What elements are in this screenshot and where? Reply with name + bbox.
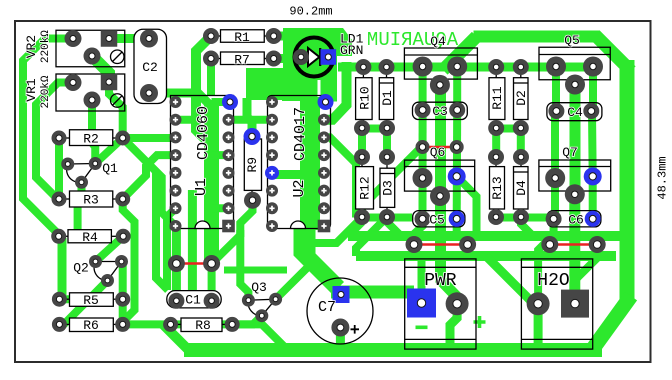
pad VR2-2 square bbox=[101, 30, 118, 47]
wire H2O round pad down bbox=[534, 304, 543, 350]
pad C6 left bbox=[546, 211, 562, 227]
pad jumper W1 left bbox=[168, 255, 185, 272]
svg-text:CD4017: CD4017 bbox=[292, 107, 309, 161]
pad R11 bottom bbox=[488, 120, 504, 136]
pad D4 top bbox=[513, 149, 529, 165]
pad U1 pin bbox=[223, 131, 235, 143]
wire Q6 mid through bands into PWR bbox=[441, 196, 458, 304]
pad U1 pin bbox=[223, 167, 235, 179]
IC U1 outline bbox=[171, 96, 234, 229]
pad C3 right bbox=[449, 102, 465, 118]
trimmer screw VR1 bbox=[111, 94, 125, 108]
wire band B bbox=[356, 251, 616, 261]
pad U2 pin bbox=[318, 185, 330, 197]
svg-text:R11: R11 bbox=[490, 86, 505, 110]
svg-text:R10: R10 bbox=[358, 86, 373, 109]
wire band A bbox=[348, 231, 622, 241]
pad Q1-2 bbox=[89, 157, 102, 170]
svg-text:Q5: Q5 bbox=[564, 33, 580, 48]
wire blob lower extension bbox=[246, 68, 318, 100]
wire C3 left leg through Q6 to C5 bbox=[419, 110, 427, 219]
wire left perimeter from VR2 pin bbox=[23, 39, 73, 237]
svg-text:C2: C2 bbox=[142, 60, 158, 75]
wire D3 to band B bbox=[356, 217, 387, 256]
pad R4 right bbox=[116, 229, 131, 244]
capacitor C5 outline bbox=[413, 211, 465, 227]
pad R10 top bbox=[355, 59, 371, 75]
pad U1 pin bbox=[223, 149, 235, 161]
pad VR1 wiper bbox=[84, 92, 101, 109]
svg-text:Q2: Q2 bbox=[73, 261, 89, 276]
wire Q5 middle down to Q7 bbox=[570, 85, 581, 195]
pad U1 pin bbox=[170, 114, 182, 126]
wire R6 to R8 bbox=[123, 320, 233, 328]
pad Q1-3 bbox=[75, 176, 88, 189]
wire C2 to U1 band bbox=[149, 93, 212, 107]
wire Q3 bottom to R8 right bbox=[234, 316, 262, 325]
resistor R4 bbox=[59, 230, 124, 243]
diode D3 bbox=[380, 157, 395, 217]
pad Q6-1 bbox=[413, 168, 433, 188]
pad PWR plus bbox=[446, 292, 469, 315]
pad C2 bottom bbox=[140, 84, 158, 102]
capacitor C1 bbox=[167, 291, 221, 308]
pad Q4-3 bbox=[430, 75, 450, 95]
pad H2O round bbox=[527, 292, 550, 315]
IC U2 pads bbox=[265, 94, 334, 232]
svg-text:R7: R7 bbox=[234, 53, 250, 68]
node PWR minus symbol bbox=[416, 326, 428, 330]
svg-text:H2O: H2O bbox=[537, 271, 569, 291]
svg-text:VR1: VR1 bbox=[24, 78, 39, 102]
pad R13 top bbox=[488, 149, 504, 165]
wire jumper right pad down to C1 bbox=[208, 264, 216, 301]
pad jumper W3 left bbox=[406, 236, 423, 253]
svg-text:R12: R12 bbox=[358, 176, 373, 199]
svg-text:Q4: Q4 bbox=[430, 34, 446, 49]
wire right band bbox=[620, 60, 635, 300]
pad Q5-3 bbox=[565, 75, 585, 95]
resistor R2 bbox=[59, 130, 123, 146]
wire loop R11 D2 bottoms bbox=[496, 129, 521, 158]
svg-text:C1: C1 bbox=[185, 293, 201, 308]
pad C7 minus bbox=[331, 319, 349, 337]
svg-text:Q7: Q7 bbox=[562, 145, 578, 160]
wire C6 left to jumper pad bbox=[550, 219, 554, 245]
wire R4 left down to R5 left bbox=[59, 236, 62, 299]
pad H2O square bbox=[561, 290, 589, 318]
pad jumper W1 right bbox=[203, 255, 220, 272]
wire R2 right diagonal to U1 pin8 bbox=[123, 138, 176, 226]
wire PWR round pad down bbox=[450, 304, 457, 350]
wire U2 bottom descent to C7 band bbox=[302, 228, 338, 288]
wire U2 band arm to blue pad bbox=[272, 170, 300, 179]
pad R13 bottom bbox=[488, 209, 504, 225]
wire right band top chamfer bbox=[595, 35, 631, 71]
wire Q7 mid down to H2O bbox=[569, 194, 580, 300]
pad VR1-2 square bbox=[101, 74, 118, 91]
pad C3 left bbox=[415, 102, 431, 118]
wire jumper right to U2 region bbox=[212, 230, 241, 264]
pad jumper W4 left bbox=[541, 236, 558, 253]
wire U1 left pad arm row2 bbox=[176, 116, 197, 124]
node PWR plus symbol bbox=[474, 316, 486, 328]
capacitor C6 outline bbox=[547, 211, 601, 227]
pad U2 pin bbox=[318, 202, 330, 214]
wire R12 D3 bottom row bbox=[362, 214, 412, 222]
pad U2 pin bbox=[266, 185, 278, 197]
wire diag to R6 left bbox=[59, 302, 86, 324]
wire jumper W4 bbox=[550, 243, 597, 246]
svg-text:R2: R2 bbox=[83, 132, 99, 147]
pad R11 top bbox=[488, 59, 504, 75]
pad C1 left bbox=[168, 293, 184, 309]
pad U1 pin bbox=[170, 185, 182, 197]
pad R9 bottom bbox=[244, 192, 261, 209]
wire loop R10 D1 bottoms bbox=[362, 129, 387, 158]
svg-text:C7: C7 bbox=[318, 299, 336, 316]
wire mid diagonal to H2O bbox=[486, 256, 537, 307]
pad D4 bottom bbox=[513, 209, 529, 225]
svg-text:R6: R6 bbox=[83, 318, 99, 333]
pad Q7-3 bbox=[565, 184, 585, 204]
pad R1 right bbox=[266, 28, 282, 44]
wire Q4 right leg bbox=[453, 67, 461, 111]
pad R12 top bbox=[354, 149, 370, 165]
resistor R12 bbox=[356, 157, 374, 217]
pad D3 bottom bbox=[379, 209, 395, 225]
svg-text:220kΩ: 220kΩ bbox=[40, 30, 52, 63]
svg-text:C5: C5 bbox=[429, 213, 445, 228]
pad U1 pin square bbox=[222, 220, 235, 233]
wire U2 band top arm bbox=[282, 93, 310, 101]
pad Q4-1 bbox=[413, 57, 433, 77]
capacitor C2 bbox=[134, 29, 167, 103]
pad U2 pin bbox=[266, 131, 278, 143]
wire blob area main bbox=[283, 28, 337, 80]
transistor Q2 outline bbox=[94, 262, 121, 281]
pad R7 right bbox=[266, 51, 282, 67]
svg-text:GRN: GRN bbox=[340, 43, 363, 58]
pad R10 bottom bbox=[354, 120, 370, 136]
wire U1 left stripe 2 bbox=[188, 190, 197, 290]
pad Q7-1 bbox=[545, 168, 565, 188]
diode D2 bbox=[514, 67, 529, 128]
wire Q3 left connector bbox=[240, 236, 248, 300]
pad U1 pin bbox=[223, 114, 235, 126]
pad U2 pin bbox=[266, 220, 278, 232]
pad U1 pin blue top bbox=[222, 94, 238, 110]
transistor Q4 outline bbox=[404, 48, 477, 79]
svg-text:48.3mm: 48.3mm bbox=[656, 156, 670, 199]
wire Q4 middle down to Q6 bbox=[435, 85, 446, 196]
resistor R13 bbox=[490, 157, 505, 217]
pad C2 top bbox=[140, 30, 158, 48]
transistor Q5 outline bbox=[539, 47, 610, 80]
pad U2 pin bbox=[266, 149, 278, 161]
resistor R10 bbox=[356, 67, 373, 128]
wire jumper W3 bbox=[414, 243, 468, 246]
pad U2 pin bbox=[318, 167, 330, 179]
wire R2 left to R3 left bbox=[55, 138, 63, 199]
wire Q6 jumper left diag to R12 bottom bbox=[362, 146, 422, 217]
label C7 plus bbox=[351, 325, 360, 334]
wire U1 left stripe 1 bbox=[167, 208, 176, 290]
wire U1 band arm row7 bbox=[212, 204, 229, 212]
LED LD1 cathode bar bbox=[319, 48, 321, 66]
wire R2 right to Q1 right diag bbox=[95, 138, 122, 164]
IC U1 pads bbox=[170, 94, 239, 232]
pad U2 pin bbox=[266, 202, 278, 214]
wire R4 right to Q2 left bbox=[96, 236, 124, 261]
potentiometer VR2 bbox=[56, 30, 125, 67]
wire H2O round pad up bbox=[538, 245, 550, 304]
svg-text:VR2: VR2 bbox=[24, 35, 39, 58]
pad LED anode bbox=[293, 49, 309, 65]
pad U1 pin bbox=[223, 202, 235, 214]
wire VR2 square to C2 bbox=[109, 34, 149, 43]
svg-text:U1: U1 bbox=[193, 178, 210, 196]
pad VR1-1 bbox=[65, 74, 82, 91]
pad R5 left bbox=[52, 292, 67, 307]
resistor R5 bbox=[59, 293, 122, 307]
transistor Q6 outline bbox=[405, 160, 475, 191]
pad C5 left bbox=[415, 211, 431, 227]
capacitor C7 outline circle bbox=[307, 278, 373, 344]
pad Q2-1 bbox=[89, 255, 102, 268]
transistor Q3 outline bbox=[248, 299, 275, 316]
pad U1 pin bbox=[170, 96, 182, 108]
wire D3 to band A bbox=[387, 217, 399, 237]
svg-text:220kΩ: 220kΩ bbox=[40, 75, 52, 108]
wire Q2 right to R5 right to R6 right bbox=[122, 262, 123, 325]
wire C4 right to Q7 blue to C6 blue bbox=[588, 111, 597, 219]
pad R8 left bbox=[163, 317, 178, 332]
wire band A left tip bbox=[348, 222, 362, 236]
pad R6 right bbox=[115, 317, 130, 332]
pad U2 pin blue top bbox=[318, 94, 334, 110]
pad R12 bottom bbox=[354, 209, 370, 225]
resistor R3 bbox=[59, 191, 123, 207]
wire U2 internal band bbox=[300, 97, 320, 230]
svg-text:D2: D2 bbox=[514, 90, 529, 106]
pad VR2 wiper bbox=[84, 48, 101, 65]
wire VR1 square to R2 right bbox=[109, 82, 123, 138]
wire R8 right to bottom band bbox=[232, 324, 287, 350]
svg-text:PWR: PWR bbox=[424, 271, 457, 291]
resistor R8 bbox=[171, 318, 233, 332]
svg-text:D1: D1 bbox=[380, 90, 395, 106]
pad U2 pin bbox=[266, 96, 278, 108]
capacitor C3 outline bbox=[413, 102, 468, 119]
pad U1 pin bbox=[170, 202, 182, 214]
wire jumper W2 bbox=[423, 146, 457, 149]
wire R1 left down bbox=[196, 36, 211, 139]
svg-text:R4: R4 bbox=[82, 230, 98, 245]
wire C7 plus pad down bbox=[336, 328, 345, 351]
svg-text:Q3: Q3 bbox=[251, 280, 267, 295]
wire left stripe extra bbox=[156, 172, 168, 290]
wire Q6 blue diag down bbox=[457, 176, 477, 237]
wire U1 pin8 down through jumper W1 to C1 left bbox=[171, 226, 181, 301]
pad U2 pin blue bbox=[265, 166, 279, 180]
wire Q1 bottom stub down bbox=[78, 182, 86, 192]
wire Q2 bottom to R5 left bbox=[59, 281, 107, 300]
pad U2 pin square bbox=[318, 220, 331, 233]
pad U2 pin bbox=[266, 114, 278, 126]
wire blob right finger to U2 bbox=[321, 80, 338, 102]
pad Q3-3 bbox=[255, 309, 268, 322]
svg-text:R3: R3 bbox=[83, 193, 99, 208]
pad C4 left bbox=[548, 103, 564, 119]
wire Q6 jumper right to blue pad bbox=[453, 110, 462, 219]
pad D3 top bbox=[379, 149, 395, 165]
pad R6 left bbox=[52, 317, 67, 332]
pad Q5-2 bbox=[583, 57, 603, 77]
wire C5 blue stub bbox=[453, 219, 461, 236]
wire jumper W3 right to band B bbox=[464, 245, 472, 259]
svg-text:90.2mm: 90.2mm bbox=[289, 5, 332, 19]
resistor R6 bbox=[59, 318, 122, 332]
pad Q2-3 bbox=[101, 274, 114, 287]
wire D4 to band A bbox=[521, 217, 531, 237]
wire R8 row to bottom band bbox=[163, 324, 189, 350]
pad jumper W3 right bbox=[459, 236, 476, 253]
svg-text:U2: U2 bbox=[291, 179, 308, 197]
wire C7 horizontal band to PWR blue bbox=[331, 286, 414, 299]
svg-text:R1: R1 bbox=[234, 30, 250, 45]
pad PWR minus blue square bbox=[407, 289, 436, 318]
wire R13 D4 bottom row bbox=[496, 214, 547, 222]
svg-text:R5: R5 bbox=[83, 293, 99, 308]
pad R1 left bbox=[203, 28, 219, 44]
pad U1 pin bbox=[170, 167, 182, 179]
trimmer screw VR2 bbox=[111, 50, 125, 64]
pad Q2-2 bbox=[115, 255, 128, 268]
transistor Q1 outline bbox=[67, 164, 96, 183]
pad Q6-2 blue bbox=[448, 167, 466, 185]
pad jumper W2 left bbox=[416, 140, 430, 154]
wire Q4 left leg bbox=[419, 67, 427, 111]
wire PWR blue pad up bbox=[414, 245, 422, 304]
resistor R11 bbox=[489, 67, 505, 128]
wire U1 internal band bbox=[204, 100, 219, 264]
svg-text:R13: R13 bbox=[490, 176, 505, 199]
pad U2 pin bbox=[318, 149, 330, 161]
svg-text:C6: C6 bbox=[568, 213, 584, 228]
pad Q1-1 bbox=[61, 158, 74, 171]
connector H2O outline bbox=[521, 259, 592, 349]
pad Q5-1 bbox=[546, 57, 566, 77]
svg-text:D4: D4 bbox=[514, 180, 529, 196]
wire jumper W1 bbox=[176, 262, 211, 265]
svg-text:Q6: Q6 bbox=[430, 145, 446, 160]
pad U2 pin bbox=[318, 131, 330, 143]
diode D4 bbox=[514, 157, 529, 217]
pad Q4-2 bbox=[447, 57, 467, 77]
wire R3 right to U1 bbox=[123, 155, 176, 199]
pad jumper W2 right bbox=[450, 140, 464, 154]
wire left inner from VR1 pin bbox=[36, 83, 73, 201]
pad Q3-1 bbox=[242, 294, 255, 307]
pad jumper W4 right bbox=[589, 236, 606, 253]
pad Q7-2 blue bbox=[584, 167, 602, 185]
svg-text:R8: R8 bbox=[195, 318, 211, 333]
pad LED cathode blue square bbox=[321, 49, 337, 65]
pad R3 left bbox=[52, 192, 67, 207]
wire C5 left to jumper pad bbox=[414, 219, 423, 245]
pad R3 right bbox=[115, 192, 130, 207]
pad C4 right bbox=[583, 103, 599, 119]
pad VR2-1 bbox=[65, 30, 82, 47]
pad R5 right bbox=[115, 292, 130, 307]
wire Q3 right up to U2 bbox=[276, 230, 312, 299]
capacitor C4 outline bbox=[547, 103, 602, 121]
wire top horizontal row y67 bbox=[338, 63, 593, 72]
wire top band bbox=[474, 31, 601, 43]
transistor Q7 outline bbox=[539, 160, 611, 191]
wire R7 left down bbox=[207, 59, 215, 96]
pad U2 pin bbox=[318, 114, 330, 126]
wire R3 right down to R6 right bbox=[123, 199, 135, 324]
wire h row y243 to R12 bottom bbox=[306, 218, 363, 244]
wire VR2 wiper to VR1 square bbox=[92, 56, 109, 82]
wire top band drop diagonal bbox=[443, 37, 477, 71]
LED LD1 circle bbox=[295, 38, 334, 77]
pad C7 plus blue square bbox=[333, 286, 350, 303]
resistor R9 bbox=[244, 137, 261, 201]
wire jumper to H2O square pad bbox=[575, 245, 597, 301]
wire y67 row branch down to U2 pin bbox=[324, 62, 347, 120]
pad C5 right blue bbox=[449, 211, 465, 227]
wire R2 right to U1 bbox=[123, 134, 176, 142]
pad U1 pin bbox=[170, 220, 182, 232]
wire U1 band arm row1 bbox=[212, 98, 231, 106]
pad D1 bottom bbox=[379, 120, 395, 136]
pad R2 left bbox=[52, 131, 67, 146]
wire Q5 right leg bbox=[589, 67, 597, 112]
svg-text:D3: D3 bbox=[381, 180, 396, 196]
svg-text:R9: R9 bbox=[245, 157, 260, 173]
connector PWR outline bbox=[405, 259, 476, 349]
pad D1 top bbox=[379, 59, 395, 75]
svg-text:CD4060: CD4060 bbox=[195, 106, 212, 160]
LED LD1 diode triangle bbox=[308, 48, 319, 66]
wire h stub y270 bbox=[224, 267, 287, 274]
wire VR1 wiper down to Q1 bbox=[92, 100, 95, 164]
pad R7 left bbox=[203, 51, 219, 67]
pad D2 top bbox=[513, 59, 529, 75]
pad R2 right bbox=[115, 131, 130, 146]
wire blob to R9 top bbox=[247, 98, 252, 137]
pad Q3-2 bbox=[269, 293, 282, 306]
pad U1 pin bbox=[223, 185, 235, 197]
potentiometer VR1 bbox=[56, 74, 125, 111]
resistor R1 bbox=[211, 30, 274, 43]
pad U1 pin bbox=[170, 131, 182, 143]
wire bottom band bbox=[184, 343, 602, 357]
IC U2 outline bbox=[268, 96, 331, 229]
wire Q5 left leg bbox=[552, 67, 560, 112]
pad R8 right bbox=[225, 317, 240, 332]
pad C6 right blue bbox=[585, 211, 601, 227]
wire R7 right arm bbox=[274, 54, 285, 63]
pad R9 top blue bbox=[244, 128, 261, 145]
wire R3 stub bbox=[74, 202, 82, 230]
pad U1 pin bbox=[170, 149, 182, 161]
wire R9 bottom connector bbox=[240, 200, 252, 236]
diode D1 bbox=[379, 67, 393, 128]
